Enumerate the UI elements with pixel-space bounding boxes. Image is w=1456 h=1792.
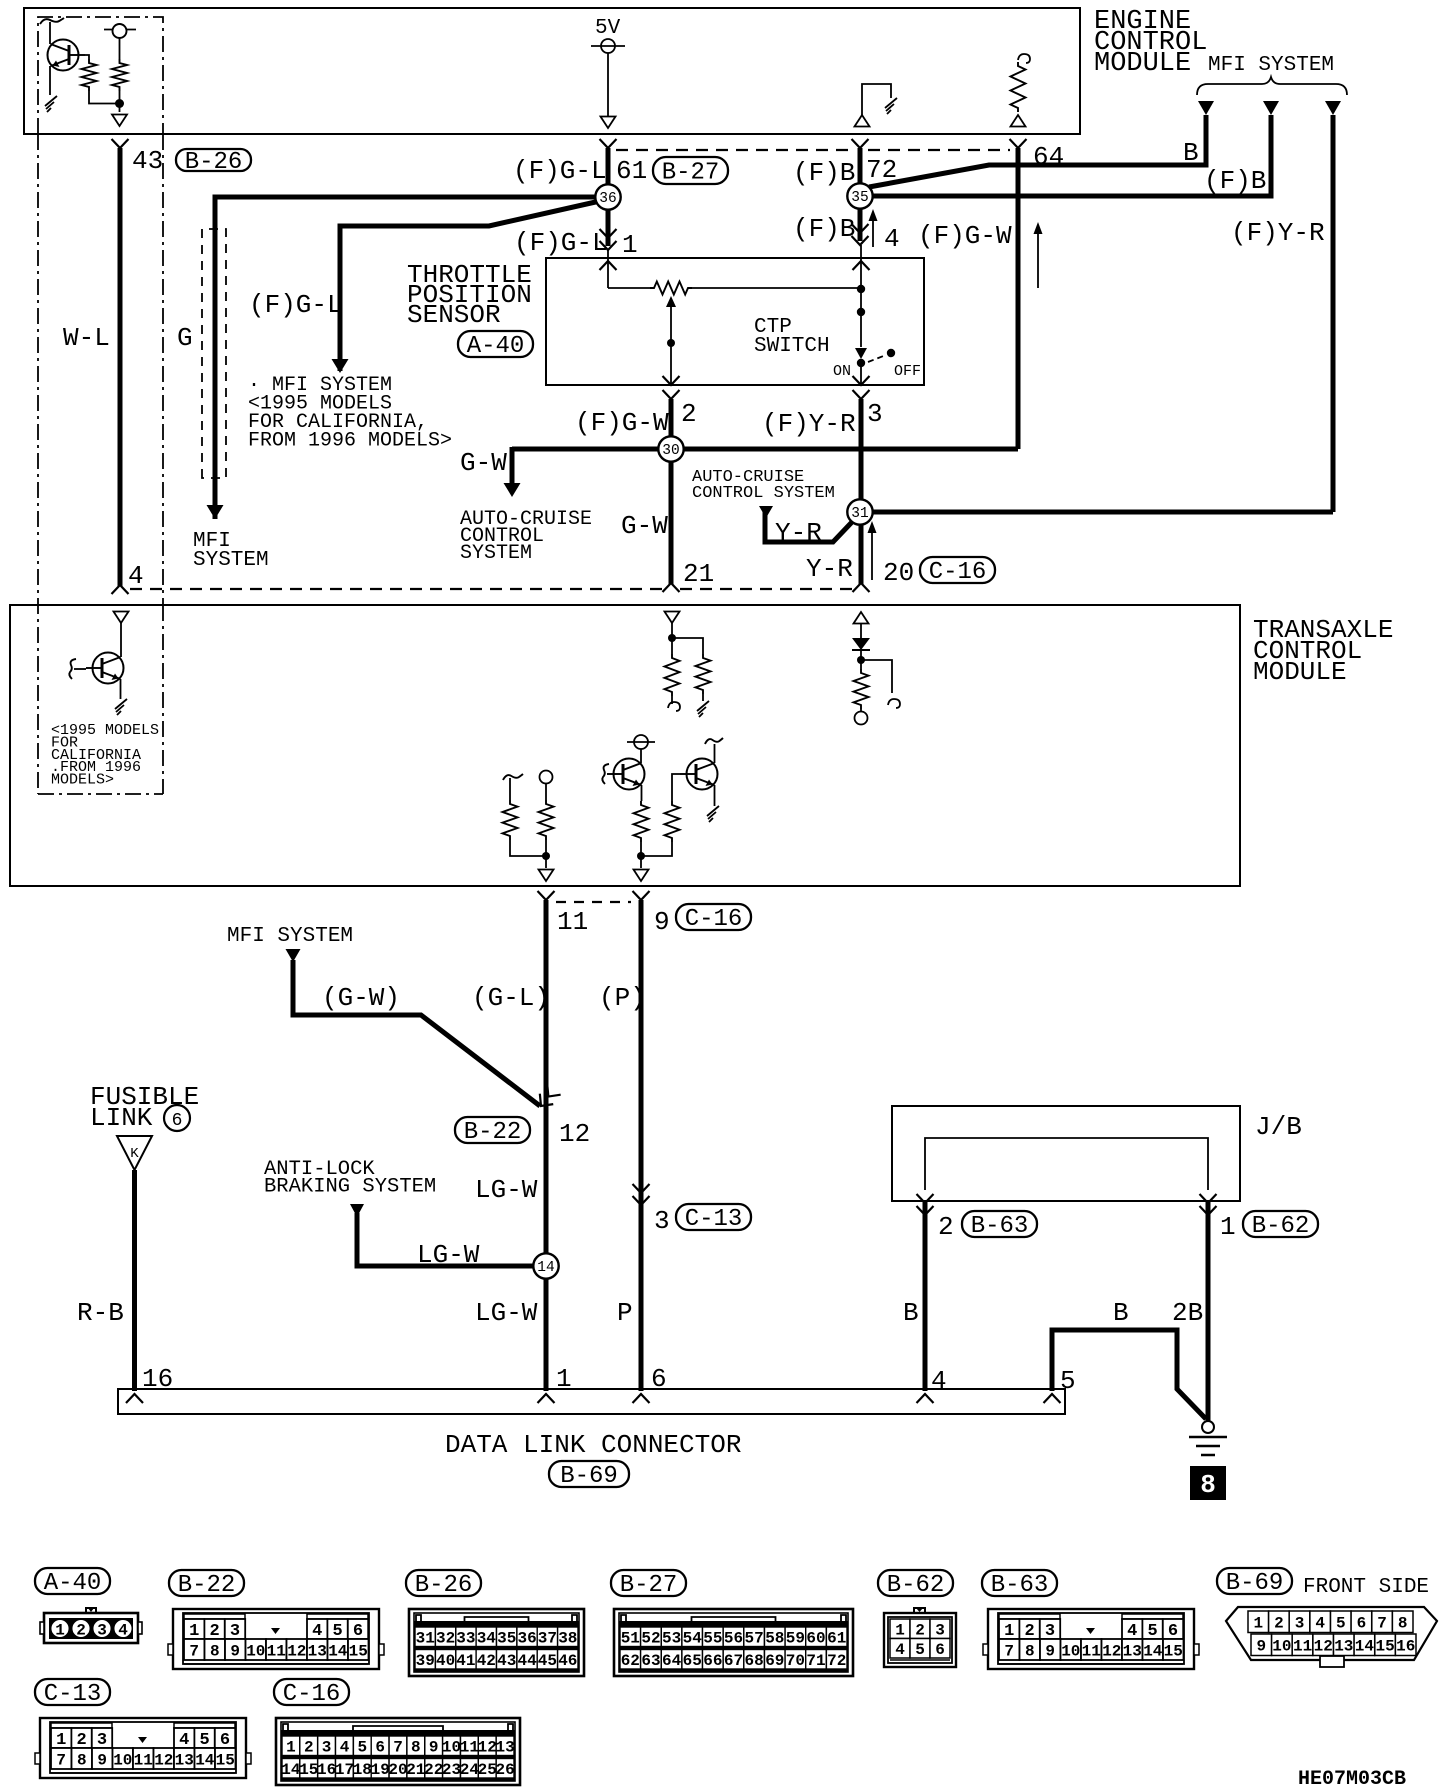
- svg-text:62: 62: [621, 1652, 640, 1670]
- connector label B-26 (inline): [176, 149, 251, 176]
- coil-end tcm11 coil: [503, 774, 523, 780]
- svg-text:46: 46: [558, 1652, 577, 1670]
- svg-text:67: 67: [724, 1652, 743, 1670]
- svg-text:2: 2: [76, 1622, 86, 1640]
- resistor tcm R6: [854, 669, 869, 709]
- svg-text:9: 9: [654, 907, 670, 937]
- label AUTO-CRUISE CONTROL SYSTEM (right): [692, 468, 835, 503]
- svg-text:1: 1: [1220, 1212, 1236, 1242]
- wire tcm11 right lead: [545, 783, 547, 800]
- svg-text:C-13: C-13: [44, 1681, 102, 1708]
- connector label C-16: [274, 1679, 349, 1708]
- svg-text:44: 44: [517, 1652, 537, 1670]
- resistor tcm R9: [634, 801, 649, 842]
- CTP contact dot: [857, 359, 865, 367]
- svg-text:2: 2: [938, 1212, 954, 1242]
- tcm20 dot: [857, 656, 865, 664]
- wire tcm21 branch: [672, 638, 703, 654]
- resistor ECM R1: [82, 59, 97, 91]
- wire (F)G-W wire: [1016, 148, 1021, 449]
- wire B wire (pin4): [923, 1201, 928, 1391]
- svg-text:MODULE: MODULE: [1094, 49, 1191, 79]
- wire ECM Q1 collector lead: [49, 22, 51, 44]
- svg-text:5V: 5V: [595, 17, 621, 40]
- svg-text:4: 4: [1315, 1615, 1325, 1633]
- terminal tcm9 out terminal: [634, 870, 649, 882]
- label TRANSAXLE CONTROL MODULE: [1253, 615, 1393, 687]
- svg-text:B: B: [1113, 1298, 1129, 1328]
- wire harness border bottom (dashed): [130, 588, 852, 590]
- svg-text:61: 61: [616, 156, 647, 186]
- svg-text:2: 2: [915, 1622, 925, 1640]
- pin DLC pin1: [538, 1394, 555, 1403]
- svg-text:B: B: [903, 1298, 919, 1328]
- connector label B-63 (inline): [962, 1211, 1037, 1240]
- svg-text:52: 52: [641, 1630, 660, 1648]
- connector B-22 drawing: [168, 1609, 384, 1669]
- wire tcm11 left lead: [509, 778, 511, 800]
- connector label B-62: [878, 1570, 953, 1599]
- svg-text:8: 8: [77, 1751, 87, 1769]
- svg-text:11: 11: [1293, 1638, 1312, 1656]
- svg-text:B-26: B-26: [185, 149, 243, 176]
- pin pin 4 inner mark: [853, 261, 870, 270]
- connector label B-69 (inline): [549, 1461, 629, 1490]
- ground ECM Q1 ground: [45, 96, 57, 112]
- resistor ECM R3: [1011, 62, 1026, 112]
- svg-text:56: 56: [724, 1630, 743, 1648]
- connector label C-13: [35, 1679, 110, 1708]
- svg-text:7: 7: [189, 1642, 199, 1660]
- svg-text:7: 7: [393, 1739, 403, 1757]
- svg-text:1: 1: [556, 1364, 572, 1394]
- pin pin 2 (TPS bottom): [663, 376, 680, 385]
- wire arrow up beside 64 wire: [1037, 232, 1039, 288]
- wire (F)Y-R wire: [1331, 115, 1336, 512]
- transistor cal Q2: [86, 653, 124, 684]
- terminal 5V terminal: [601, 117, 616, 129]
- svg-text:34: 34: [477, 1630, 497, 1648]
- wire tcm Q4 collector lead: [714, 744, 716, 763]
- svg-text:59: 59: [786, 1630, 805, 1648]
- pin pin 21: [663, 583, 680, 592]
- svg-text:1: 1: [895, 1622, 905, 1640]
- svg-text:18: 18: [353, 1761, 372, 1779]
- svg-text:43: 43: [132, 146, 163, 176]
- wire ECM R2 top line: [104, 29, 136, 31]
- svg-text:(F)B: (F)B: [1204, 166, 1266, 196]
- ground cal ground: [115, 699, 127, 715]
- terminal tcm11 out terminal: [539, 870, 554, 882]
- arrow from MFI arrow: [286, 949, 301, 962]
- wire tcm R7 lead: [510, 840, 546, 856]
- svg-text:12: 12: [1314, 1638, 1333, 1656]
- pin DLC pin6: [633, 1394, 650, 1403]
- svg-text:12: 12: [559, 1119, 590, 1149]
- svg-text:65: 65: [683, 1652, 702, 1670]
- svg-text:6: 6: [651, 1364, 667, 1394]
- svg-text:FRONT SIDE: FRONT SIDE: [1303, 1576, 1429, 1599]
- wire tcm9 lead: [640, 749, 642, 763]
- wire junction31 rail: [872, 510, 1333, 515]
- svg-text:9: 9: [1256, 1638, 1266, 1656]
- svg-text:10: 10: [1272, 1638, 1291, 1656]
- svg-text:(F)G-W: (F)G-W: [575, 408, 669, 438]
- wire tcm9 link: [641, 842, 672, 856]
- svg-text:15: 15: [1164, 1642, 1183, 1660]
- svg-text:4: 4: [340, 1739, 350, 1757]
- wire tcm R4 lead: [671, 696, 673, 704]
- arrowhead beside pin20: [868, 521, 877, 533]
- pin pin 4 (TPS): [852, 224, 869, 245]
- tcm9 circle: [634, 735, 648, 749]
- wire Y-R wire: [859, 399, 864, 584]
- svg-text:SENSOR: SENSOR: [407, 300, 501, 330]
- svg-text:B-63: B-63: [991, 1572, 1049, 1599]
- svg-text:2: 2: [304, 1739, 314, 1757]
- connector label B-22: [169, 1570, 244, 1599]
- svg-text:36: 36: [517, 1630, 536, 1648]
- svg-text:DATA LINK CONNECTOR: DATA LINK CONNECTOR: [445, 1430, 741, 1460]
- pin J/B pin1 chevrons: [1200, 1194, 1217, 1203]
- svg-text:58: 58: [765, 1630, 784, 1648]
- svg-text:5: 5: [357, 1739, 367, 1757]
- pin pin 2 below: [663, 390, 680, 399]
- coil-end tcm Q3 base coil: [602, 764, 609, 784]
- resistor tcm R4: [665, 654, 680, 696]
- svg-text:C-13: C-13: [685, 1206, 743, 1233]
- resistor TPS resistor: [650, 282, 692, 295]
- svg-text:(F)G-L: (F)G-L: [514, 228, 608, 258]
- svg-text:3: 3: [935, 1622, 945, 1640]
- svg-text:16: 16: [1396, 1638, 1415, 1656]
- wire tcm R5 lead: [702, 694, 704, 701]
- svg-text:15: 15: [1375, 1638, 1394, 1656]
- svg-text:7: 7: [1377, 1615, 1387, 1633]
- arrow MFI terminal B: [1198, 101, 1214, 115]
- wire tcm20 branch: [861, 660, 892, 693]
- pin pin 1 inner mark: [600, 261, 617, 270]
- junction 31: [847, 499, 872, 524]
- connector A-40 drawing: [40, 1608, 142, 1643]
- svg-text:5: 5: [915, 1641, 925, 1659]
- svg-text:SYSTEM: SYSTEM: [193, 549, 269, 572]
- wire tcm21 lead: [671, 623, 673, 654]
- svg-text:31: 31: [416, 1630, 435, 1648]
- transistor tcm Q4: [680, 759, 718, 790]
- wire tcm9 circle bar: [627, 741, 655, 743]
- label MFI SYSTEM 1995 note: [248, 374, 452, 453]
- arrow G to MFI arrow: [207, 505, 224, 519]
- svg-text:64: 64: [662, 1652, 682, 1670]
- svg-text:(G-W): (G-W): [322, 983, 400, 1013]
- svg-text:6: 6: [172, 1111, 183, 1131]
- svg-text:11: 11: [134, 1751, 153, 1769]
- label ENGINE CONTROL MODULE: [1094, 7, 1207, 79]
- svg-text:42: 42: [477, 1652, 496, 1670]
- svg-text:(F)G-W: (F)G-W: [918, 221, 1012, 251]
- svg-text:68: 68: [744, 1652, 763, 1670]
- wire G-W stub: [510, 447, 515, 483]
- svg-text:1: 1: [622, 230, 638, 260]
- svg-text:(F)G-L: (F)G-L: [513, 156, 607, 186]
- wire pin4 into TPS: [860, 245, 862, 287]
- arrowhead beside 64 wire: [1034, 222, 1043, 234]
- connector label B-27: [611, 1570, 686, 1599]
- svg-text:B-22: B-22: [464, 1119, 522, 1146]
- wire G wire dashed box (dashed): [202, 229, 226, 478]
- connector label B-69: [1217, 1568, 1292, 1597]
- resistor ECM R2: [112, 59, 127, 91]
- wire cal base: [74, 668, 86, 670]
- CTP dot1: [857, 285, 865, 293]
- svg-text:OFF: OFF: [894, 363, 921, 380]
- svg-text:13: 13: [1123, 1642, 1142, 1660]
- junction 36: [595, 184, 620, 209]
- svg-text:G-W: G-W: [460, 448, 507, 478]
- svg-text:B-63: B-63: [971, 1213, 1029, 1240]
- terminal ECM gnd terminal: [855, 115, 870, 127]
- svg-text:4: 4: [884, 224, 900, 254]
- svg-text:7: 7: [56, 1751, 66, 1769]
- wire Y-R stub: [765, 512, 852, 542]
- svg-text:15: 15: [216, 1751, 235, 1769]
- pin pin 61 (ECM): [600, 139, 617, 148]
- coil-end ECM R3 coil: [1018, 54, 1030, 63]
- label 1995 california note: [51, 722, 159, 789]
- svg-text:J/B: J/B: [1255, 1112, 1302, 1142]
- wire harness border top (dashed): [616, 149, 1010, 151]
- wire tcm Q4 emitter lead: [714, 785, 716, 806]
- coil-end tcm R4 coil: [668, 702, 680, 711]
- terminal ECM output terminal: [112, 115, 127, 127]
- data link connector box: [118, 1389, 1065, 1414]
- wire ECM R1 bottom lead: [89, 91, 119, 104]
- svg-text:8: 8: [1398, 1615, 1408, 1633]
- svg-text:A-40: A-40: [44, 1570, 102, 1597]
- wire arrow up beside pin20: [871, 531, 873, 580]
- coil-end tcm branch coil: [888, 699, 900, 708]
- svg-text:53: 53: [662, 1630, 681, 1648]
- connector label A-40 (inline): [458, 331, 533, 360]
- svg-text:5: 5: [1060, 1366, 1076, 1396]
- terminal ECM R3 terminal: [1011, 115, 1026, 127]
- svg-text:HE07M03CB: HE07M03CB: [1298, 1768, 1406, 1791]
- junction block J/B: [892, 1106, 1240, 1201]
- junction 35: [847, 183, 872, 208]
- wire tcm20 lead: [860, 623, 862, 638]
- wire ECM base link: [85, 55, 89, 59]
- svg-text:2: 2: [681, 399, 697, 429]
- wire CTP lever (dashed): [868, 355, 886, 362]
- wire J/B inner box: [925, 1138, 1208, 1190]
- svg-text:20: 20: [388, 1761, 407, 1779]
- svg-text:32: 32: [436, 1630, 455, 1648]
- svg-text:11: 11: [557, 907, 588, 937]
- wire 2B wire: [1206, 1201, 1211, 1421]
- svg-text:2: 2: [1274, 1615, 1284, 1633]
- svg-text:FROM 1996 MODELS>: FROM 1996 MODELS>: [248, 430, 452, 453]
- svg-text:9: 9: [1045, 1642, 1055, 1660]
- wire ECM R2 bottom lead: [119, 91, 121, 112]
- svg-text:Y-R: Y-R: [806, 554, 853, 584]
- wire tcm R6 lead: [860, 709, 862, 712]
- svg-text:10: 10: [246, 1642, 265, 1660]
- wire ECM R2 lead: [119, 38, 121, 59]
- svg-text:11: 11: [1082, 1642, 1101, 1660]
- pin DLC pin16: [126, 1394, 143, 1403]
- svg-text:4: 4: [895, 1641, 905, 1659]
- svg-text:A-40: A-40: [467, 333, 525, 360]
- svg-text:9: 9: [97, 1751, 107, 1769]
- svg-text:6: 6: [375, 1739, 385, 1757]
- arrowhead beside pin4: [869, 209, 878, 221]
- ground tcm R5 ground: [697, 701, 709, 717]
- svg-text:3: 3: [867, 399, 883, 429]
- wire CTP line: [860, 287, 862, 308]
- svg-text:SYSTEM: SYSTEM: [460, 542, 532, 565]
- svg-text:B-69: B-69: [560, 1463, 618, 1490]
- pin pin 72 (ECM): [852, 139, 869, 148]
- wire (G-L) wire: [544, 900, 549, 1391]
- wire ECM Q1 emitter lead: [49, 66, 51, 95]
- svg-text:9: 9: [230, 1642, 240, 1660]
- svg-text:7: 7: [1004, 1642, 1014, 1660]
- pin pin 64 (ECM): [1010, 139, 1027, 148]
- tcm node circle: [855, 712, 868, 725]
- svg-text:BRAKING SYSTEM: BRAKING SYSTEM: [264, 1176, 436, 1199]
- TPS wiper arrow: [666, 296, 676, 307]
- svg-text:24: 24: [460, 1761, 480, 1779]
- svg-text:57: 57: [744, 1630, 763, 1648]
- connector label C-16 (inline 2): [676, 904, 751, 933]
- node R2 top circle: [113, 24, 127, 38]
- svg-text:14: 14: [328, 1642, 348, 1660]
- wire tcm R9 lead: [640, 842, 642, 868]
- svg-text:MFI SYSTEM: MFI SYSTEM: [227, 925, 353, 948]
- wire CTP out: [860, 363, 862, 385]
- svg-text:LG-W: LG-W: [475, 1175, 538, 1205]
- arrow MFI terminal (F)B: [1263, 101, 1279, 115]
- svg-text:R-B: R-B: [77, 1298, 124, 1328]
- svg-text:5: 5: [1336, 1615, 1346, 1633]
- svg-text:72: 72: [827, 1652, 846, 1670]
- wire tcm R8 lead: [545, 840, 547, 868]
- svg-text:11: 11: [460, 1739, 479, 1757]
- svg-text:(F)Y-R: (F)Y-R: [1231, 218, 1325, 248]
- svg-text:G-W: G-W: [621, 511, 668, 541]
- wire (F)B wire: [858, 148, 863, 241]
- brace MFI SYSTEM: [1197, 77, 1347, 95]
- connector C-16 drawing: [276, 1718, 520, 1785]
- arrow CTP moving contact arrow: [855, 348, 867, 359]
- svg-text:14: 14: [1355, 1638, 1375, 1656]
- svg-text:41: 41: [456, 1652, 475, 1670]
- tcm11 circle: [540, 771, 553, 784]
- svg-text:26: 26: [495, 1761, 514, 1779]
- svg-text:20: 20: [883, 558, 914, 588]
- svg-text:ON: ON: [833, 363, 851, 380]
- svg-text:(F)B: (F)B: [793, 214, 855, 244]
- svg-text:17: 17: [335, 1761, 354, 1779]
- svg-text:12: 12: [154, 1751, 173, 1769]
- wire junction30 rail: [512, 447, 1018, 452]
- svg-text:8: 8: [1025, 1642, 1035, 1660]
- svg-text:38: 38: [558, 1630, 577, 1648]
- connector B-69 drawing: [1226, 1607, 1437, 1667]
- wire 5V bar: [591, 45, 625, 47]
- svg-text:3: 3: [1295, 1615, 1305, 1633]
- coil-end ECM Q1 coil: [40, 18, 64, 24]
- pin J/B pin2 chevrons: [917, 1194, 934, 1203]
- connector label A-40: [35, 1568, 110, 1597]
- pin pin 3 (TPS bottom): [853, 376, 870, 385]
- svg-text:12: 12: [287, 1642, 306, 1660]
- coil-end tcm Q4 coil: [705, 738, 723, 744]
- svg-text:21: 21: [406, 1761, 425, 1779]
- wire (P) wire: [639, 900, 644, 1391]
- svg-text:61: 61: [827, 1630, 846, 1648]
- coil-end cal base coil: [69, 659, 76, 679]
- svg-text:16: 16: [317, 1761, 336, 1779]
- svg-text:19: 19: [371, 1761, 390, 1779]
- svg-text:31: 31: [851, 506, 868, 522]
- wire TPS wiper: [670, 305, 672, 385]
- svg-text:1: 1: [1253, 1615, 1263, 1633]
- svg-text:21: 21: [683, 559, 714, 589]
- diode D1: [852, 638, 870, 650]
- svg-text:69: 69: [765, 1652, 784, 1670]
- svg-text:C-16: C-16: [929, 559, 987, 586]
- svg-text:B-69: B-69: [1226, 1570, 1284, 1597]
- pin pin 43 (ECM): [112, 139, 129, 148]
- svg-text:10: 10: [442, 1739, 461, 1757]
- svg-text:Y-R: Y-R: [775, 518, 822, 548]
- TPS wiper dot: [667, 339, 675, 347]
- terminal cal terminal: [114, 612, 129, 624]
- connector C-13 drawing: [35, 1718, 251, 1778]
- ground tcm Q4 ground: [707, 806, 719, 822]
- svg-text:LG-W: LG-W: [475, 1298, 538, 1328]
- connector label B-22 (inline): [455, 1117, 530, 1146]
- wire tcm Q3 emitter lead: [641, 785, 643, 801]
- pin DLC pin4: [917, 1394, 934, 1403]
- fusible link symbol: [117, 1136, 152, 1170]
- svg-text:15: 15: [299, 1761, 318, 1779]
- pin pin 3 below: [853, 390, 870, 399]
- svg-text:SWITCH: SWITCH: [754, 335, 830, 358]
- svg-text:30: 30: [662, 443, 679, 459]
- ground ECM gnd hatch: [885, 98, 897, 114]
- tcm11 dot: [542, 852, 550, 860]
- wire W-L wire: [118, 148, 123, 586]
- pin 12 chevrons: [534, 1084, 560, 1111]
- svg-text:1: 1: [55, 1622, 65, 1640]
- resistor tcm R8: [539, 800, 554, 840]
- svg-text:9: 9: [429, 1739, 439, 1757]
- pin pin 9 (TCM): [633, 891, 650, 900]
- connector label C-16 (inline): [920, 557, 995, 586]
- svg-text:CONTROL SYSTEM: CONTROL SYSTEM: [692, 484, 835, 503]
- svg-text:G: G: [177, 323, 193, 353]
- arrow MFI terminal (F)Y-R: [1325, 101, 1341, 115]
- connector label B-63: [982, 1570, 1057, 1599]
- svg-text:51: 51: [621, 1630, 640, 1648]
- svg-text:B-62: B-62: [887, 1572, 945, 1599]
- svg-text:12: 12: [478, 1739, 497, 1757]
- svg-text:66: 66: [703, 1652, 722, 1670]
- svg-text:14: 14: [537, 1260, 554, 1276]
